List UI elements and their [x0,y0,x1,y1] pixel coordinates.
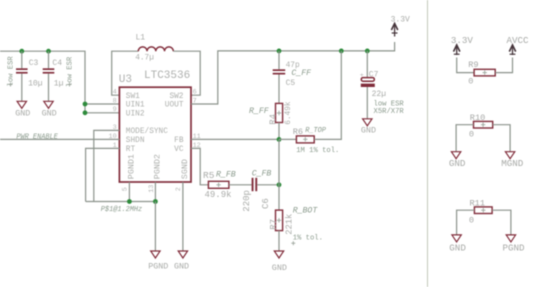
svg-text:4: 4 [113,89,117,97]
svg-text:C_FF: C_FF [291,69,311,78]
wire VIN2 pin wire [85,112,119,114]
svg-text:low ESR: low ESR [8,56,16,87]
wire PGND down [154,202,156,252]
svg-text:22µ: 22µ [372,90,387,99]
svg-text:FB: FB [174,137,184,145]
wire R9 to AVCC [495,58,512,73]
wire 3.3V to R9 [457,58,474,73]
svg-text:1µ: 1µ [54,79,64,88]
svg-text:9: 9 [113,106,117,114]
svg-text:SW1: SW1 [126,93,140,101]
resistor R11 [469,199,492,226]
capacitor C5 [273,51,300,104]
svg-text:GND: GND [42,108,57,118]
svg-text:3.3V: 3.3V [451,35,474,46]
wire FB [191,138,279,140]
junction PGND1 [127,199,132,204]
svg-text:UIN1: UIN1 [126,102,145,110]
ground GND left of R10 [449,152,466,169]
svg-text:PGND: PGND [503,242,526,253]
svg-text:R_FF: R_FF [249,107,269,116]
svg-text:R_TOP: R_TOP [305,127,327,135]
svg-text:C6: C6 [261,198,271,209]
wire PGND rail [86,201,156,203]
svg-text:R4: R4 [268,114,278,125]
capacitor C4 [43,51,75,101]
ground PGND [148,251,168,272]
svg-text:6: 6 [193,89,197,97]
wire R11 right to PGND [492,210,511,235]
svg-text:GND: GND [361,125,376,135]
svg-text:8: 8 [113,97,117,105]
resistor R4 [268,101,293,139]
svg-text:VC: VC [174,146,184,154]
svg-text:R7: R7 [269,219,279,230]
wire VOUT to 3.3V rail [191,42,395,104]
junction VOUT rail at C5 [277,49,282,54]
svg-text:UIN2: UIN2 [126,111,145,119]
svg-text:R_BOT: R_BOT [293,206,319,215]
resistor R6 [279,51,341,155]
svg-text:U3: U3 [119,74,132,86]
svg-text:0: 0 [469,215,474,225]
svg-text:RT: RT [126,146,136,154]
wire R11 left to GND [457,210,475,235]
svg-text:low ESR: low ESR [66,56,74,87]
junction VOUT rail at C7 [365,49,370,54]
supply 3.3V main [391,15,410,36]
wire PGND1 stub [128,182,130,202]
svg-text:R6: R6 [293,127,303,137]
svg-text:0: 0 [468,77,473,87]
ground GND under R7 [272,241,296,273]
junction PGND2 [153,199,158,204]
junction at C4 [46,49,51,54]
svg-text:1% tol.: 1% tol. [293,235,323,243]
junction VIN2 [83,110,88,115]
svg-text:L1: L1 [136,33,146,42]
supply AVCC right panel [507,35,530,55]
svg-text:MODE/SYNC: MODE/SYNC [126,128,168,136]
ground GND under SGND [174,251,189,272]
svg-text:220p: 220p [242,190,252,212]
supply 3.3V right panel [451,35,474,55]
svg-text:PGND2: PGND2 [152,154,162,179]
wire SGND down [182,182,184,251]
svg-text:C5: C5 [286,79,296,88]
svg-text:49.9k: 49.9k [205,190,232,200]
wire R10 left to GND [456,125,473,152]
svg-text:GND: GND [15,108,30,118]
svg-text:SW2: SW2 [169,93,183,101]
wire RT to PGND rail [86,148,120,201]
wire SW1 to inductor loop [112,51,139,95]
svg-text:R5: R5 [203,170,215,181]
wire MODE/SYNC to PGND rail [94,130,120,201]
capacitor C3 [8,51,43,101]
capacitor C7 [360,51,405,119]
svg-text:10µ: 10µ [28,79,43,88]
svg-text:0: 0 [469,130,474,140]
svg-text:GND: GND [449,158,466,169]
svg-text:C7: C7 [369,70,379,79]
svg-text:SHDN: SHDN [126,137,145,145]
wire PGND2 stub [154,182,156,202]
svg-text:5: 5 [122,187,130,191]
svg-text:GND: GND [449,242,466,253]
wire VC to compensation network [191,148,208,184]
ground GND under C7 [361,119,376,136]
svg-text:6.49k: 6.49k [285,101,293,125]
resistor R5 [203,170,252,200]
resistor R9 [468,60,495,87]
svg-text:13: 13 [148,185,156,193]
wire inductor to SW2 [173,51,200,95]
svg-text:LTC3536: LTC3536 [144,70,190,82]
ground GND left of R11 [449,235,466,254]
svg-text:2: 2 [175,187,183,191]
svg-text:UOUT: UOUT [165,102,184,110]
junction VOUT rail at R6 [339,49,344,54]
svg-text:SGND: SGND [180,159,190,179]
wire SHDN PWR_ENABLE net [0,138,119,140]
svg-text:C4: C4 [52,59,62,68]
resistor R10 [469,113,493,139]
svg-text:C_FB: C_FB [252,169,272,178]
junction compensation to FB divider [277,182,282,187]
frame divider line [427,0,429,287]
op-amp U3 LTC3536 body [119,70,191,182]
ground GND under C3 [15,101,30,118]
wire VIN1 pin wire [85,103,119,105]
svg-text:4.7µ: 4.7µ [135,55,154,63]
ground PGND right of R11 [503,235,526,254]
wire R10 right to MGND [493,125,510,152]
svg-text:X5R/X7R: X5R/X7R [374,108,405,116]
junction at C3 [19,49,24,54]
svg-text:MGND: MGND [501,158,524,169]
svg-text:R9: R9 [468,60,478,70]
svg-text:1M 1% tol.: 1M 1% tol. [296,147,339,155]
svg-text:PWR_ENABLE: PWR_ENABLE [16,133,58,141]
junction FB node [277,137,282,142]
svg-text:AVCC: AVCC [507,35,530,46]
ground MGND [501,152,524,169]
wire input rail VIN [0,51,85,113]
svg-text:P$1@1.2MHz: P$1@1.2MHz [101,206,142,214]
svg-text:PGND: PGND [148,262,168,272]
svg-text:C3: C3 [29,59,39,68]
svg-text:GND: GND [272,263,287,273]
resistor R7 [269,210,323,251]
ground GND under C4 [42,101,57,118]
svg-text:3.3V: 3.3V [391,15,410,24]
svg-text:R_FB: R_FB [216,170,236,179]
wire FB divider vertical [278,139,280,210]
inductor L1 [135,33,173,62]
capacitor C6 [242,178,279,212]
junction VIN1 [83,102,88,107]
svg-text:221k: 221k [285,214,295,235]
svg-text:PGND1: PGND1 [126,154,136,179]
svg-text:GND: GND [174,262,189,272]
svg-text:+: + [360,72,364,80]
